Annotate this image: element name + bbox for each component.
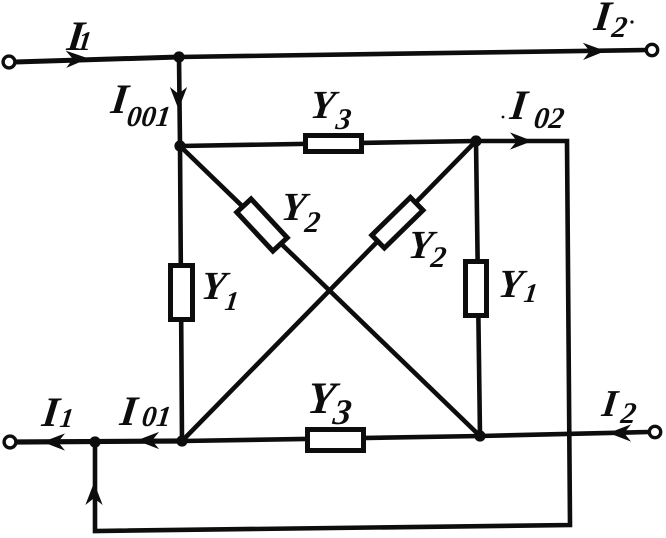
label I1 bottom [39, 389, 76, 436]
label Y1 left [199, 263, 241, 316]
terminal top-right [646, 44, 657, 55]
resistor Y2 left diagonal [237, 199, 287, 251]
wire diagonal node A to node D [180, 146, 480, 436]
label I1 top [64, 13, 94, 60]
label Y2 right [406, 222, 448, 274]
wire top edge node A to node B [180, 141, 476, 146]
arrow I2 input left [610, 426, 630, 441]
label I001 [108, 76, 173, 133]
label Y2 left [279, 184, 322, 239]
wire diagonal node B to node C [182, 141, 476, 441]
node C dot [176, 435, 187, 446]
resistor Y1 left [171, 266, 193, 320]
arrow I001 down [171, 89, 186, 109]
wire bottom edge node C to node D [182, 436, 480, 441]
label I2 top [591, 0, 630, 44]
resistor Y3 top [306, 136, 362, 152]
wire node D to bottom-right terminal [480, 432, 649, 436]
node D dot [474, 430, 485, 441]
terminal bottom-right [649, 426, 660, 437]
label I01 [117, 388, 173, 435]
speck near I02 [502, 116, 505, 119]
wire right side node B to node D [476, 141, 480, 436]
resistor Y2 right diagonal [372, 197, 423, 248]
svg-text:02: 02 [532, 101, 566, 135]
arrow I02 right [512, 134, 532, 149]
svg-text:01: 01 [140, 401, 173, 433]
wire left side node A to node C [180, 146, 182, 441]
terminal top-left [3, 56, 15, 68]
node A dot [174, 140, 185, 151]
wire node C to bottom-left terminal [16, 441, 182, 442]
label Y3 top [308, 82, 353, 136]
arrow I2 output right [584, 44, 604, 59]
speck near I2 top [630, 20, 633, 23]
label Y3 bottom [305, 373, 354, 432]
node B dot [470, 135, 481, 146]
arrow I1 input right [67, 51, 87, 67]
node J junction dot [89, 436, 100, 447]
svg-text:001: 001 [125, 101, 172, 133]
resistor Y3 bottom [308, 430, 364, 451]
wire input top-left terminal to node N [15, 57, 179, 62]
resistor Y1 right [466, 262, 487, 316]
terminal bottom-left [4, 436, 16, 448]
wire feedback loop B corner down bottom up to junction J [95, 141, 570, 531]
wire node N to top-right terminal [179, 50, 646, 57]
arrow I1 output left [44, 435, 64, 450]
wire node N down to node A [179, 57, 180, 146]
label Y1 right [496, 261, 540, 308]
arrow I01 left on edge [138, 433, 158, 448]
label I02 [507, 82, 567, 135]
arrow feedback up [87, 484, 102, 504]
node N junction dot [173, 51, 184, 62]
label I2 bottom [599, 383, 638, 430]
